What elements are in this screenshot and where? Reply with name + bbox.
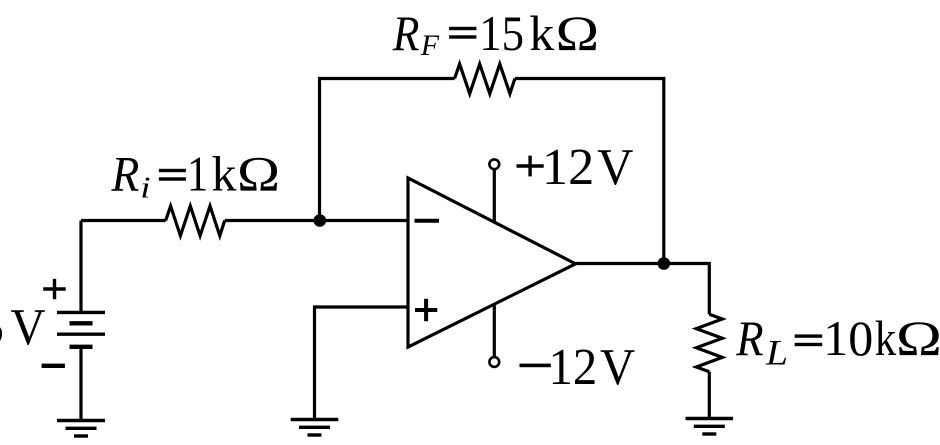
resistor Ri	[166, 206, 225, 236]
svg-text:12: 12	[542, 139, 594, 196]
svg-text:15: 15	[479, 7, 524, 62]
label +12 V	[517, 138, 634, 196]
label RF = 15 kOhm	[392, 5, 599, 62]
svg-text:F: F	[420, 29, 440, 62]
label - of source	[42, 364, 65, 368]
resistor RF	[455, 64, 515, 94]
label 5 V (cut off at left edge)	[0, 297, 46, 356]
svg-text:i: i	[140, 170, 150, 204]
svg-text:k: k	[875, 311, 897, 367]
svg-text:Ω: Ω	[237, 146, 280, 201]
label + noninverting input marker	[415, 299, 437, 321]
svg-text:10: 10	[823, 310, 873, 366]
pin: +12V supply terminal	[489, 159, 499, 169]
ground (under RL)	[686, 419, 734, 435]
svg-text:L: L	[765, 333, 788, 373]
wire: output wire from op-amp apex to load corner	[576, 264, 710, 315]
wire: source left vertical down to battery	[79, 221, 82, 312]
wire: RL bottom to ground	[708, 372, 711, 418]
label - inverting input marker	[415, 219, 440, 223]
wire: battery bottom to ground	[79, 347, 82, 420]
wire: noninverting input wire to ground	[315, 307, 409, 418]
svg-text:k: k	[529, 5, 554, 61]
label + of source	[43, 279, 65, 299]
battery V1 (source)	[57, 312, 105, 346]
svg-text:Ω: Ω	[896, 311, 940, 366]
svg-text:V: V	[11, 297, 46, 355]
svg-text:Ω: Ω	[556, 6, 599, 61]
label Ri = 1 kOhm	[111, 146, 281, 205]
svg-text:5: 5	[0, 299, 4, 356]
node: inverting input junction dot	[314, 214, 327, 227]
label RL = 10 kOhm	[735, 310, 940, 373]
resistor RL (vertical)	[696, 314, 722, 372]
ground (under battery)	[57, 421, 105, 437]
wire: input wire from Ri to op-amp inverting input	[225, 219, 408, 222]
wire: feedback left vertical (inverting node up to top rail)	[320, 79, 455, 221]
svg-text:V: V	[600, 337, 635, 395]
svg-text:1: 1	[187, 148, 208, 203]
svg-text:R: R	[735, 312, 763, 367]
ground (noninverting input)	[291, 420, 339, 436]
svg-text:V: V	[597, 138, 633, 196]
svg-text:12: 12	[549, 337, 598, 395]
node: output junction dot	[658, 257, 671, 270]
op-amp U1 triangle	[408, 178, 576, 347]
label -12 V	[520, 337, 636, 395]
wire: feedback top-right rail and right vertical down to output node	[515, 79, 664, 264]
wire: input wire left segment from source top to Ri	[81, 219, 166, 222]
svg-text:R: R	[392, 6, 420, 61]
svg-text:k: k	[212, 146, 237, 202]
pin: -12V supply terminal	[489, 357, 499, 367]
svg-text:R: R	[111, 147, 140, 202]
